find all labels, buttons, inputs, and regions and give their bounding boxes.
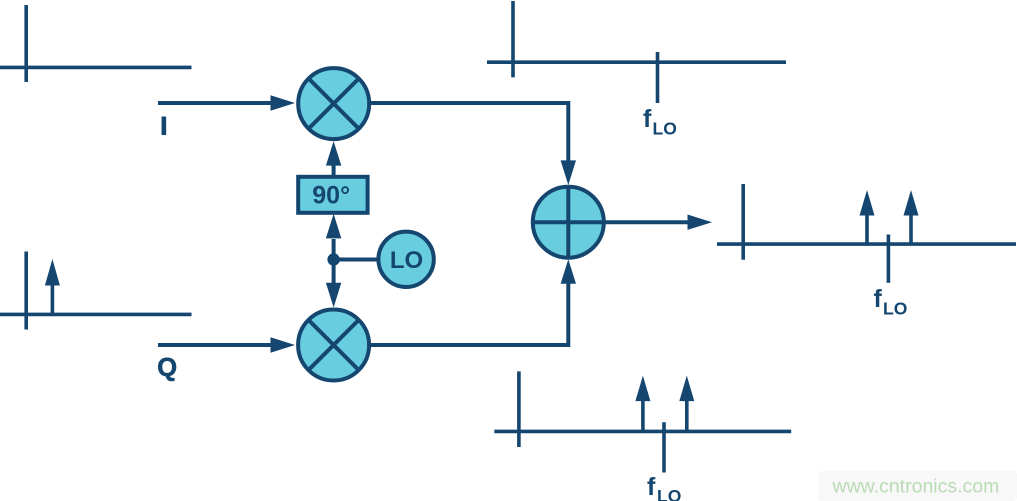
svg-text:LO: LO [657, 486, 681, 501]
spectrum right impulse 1 arrowhead [860, 190, 875, 216]
spectrum top-middle (LO spectrum) vertical axis [511, 1, 515, 77]
summer circle [533, 187, 604, 258]
spectrum bottom-middle impulse 2 shaft [685, 400, 689, 431]
svg-text:90°: 90° [312, 182, 350, 210]
spectrum axes top-left horizontal axis [0, 66, 192, 70]
wire junction to LO circle [334, 258, 378, 262]
wire junction down to mixer M2 [332, 260, 336, 285]
mixer M1 circle [298, 68, 369, 139]
spectrum right impulse 2 arrowhead [904, 190, 919, 216]
wire I input [158, 101, 272, 105]
svg-text:f: f [643, 105, 652, 133]
spectrum left-middle horizontal axis [0, 313, 192, 317]
mixer M1 X diagonal 1 [309, 79, 359, 129]
wire summer output [603, 220, 689, 224]
spectrum right fLO tick [887, 235, 891, 283]
arrowhead into summer bottom [561, 259, 576, 284]
summer plus horizontal line [534, 220, 603, 224]
arrowhead into summer top [561, 160, 576, 185]
wire junction to 90deg box [332, 239, 336, 260]
LO oscillator circle [378, 232, 433, 287]
spectrum right horizontal axis [717, 242, 1016, 246]
mixer M2 X diagonal 1 [309, 320, 359, 370]
spectrum left-middle (Q input spectrum) vertical axis [24, 252, 28, 330]
mixer M1 X diagonal 2 [309, 79, 359, 129]
svg-text:f: f [874, 285, 883, 313]
svg-text:I: I [160, 113, 167, 141]
spectrum right impulse 1 shaft [865, 213, 869, 244]
arrowhead summer output [688, 215, 713, 230]
spectrum bottom-middle impulse 2 arrowhead [679, 376, 694, 402]
spectrum bottom-middle impulse 1 arrowhead [635, 376, 650, 402]
spectrum bottom-middle impulse 1 shaft [641, 400, 645, 431]
svg-text:f: f [647, 473, 656, 501]
arrowhead into mixer M2 top [326, 283, 341, 308]
mixer M2 X diagonal 2 [309, 320, 359, 370]
wire M1 output to summer (right then down) [370, 103, 568, 162]
mixer M2 circle [298, 310, 369, 381]
svg-text:www.cntronics.com: www.cntronics.com [832, 476, 1000, 498]
summer plus vertical line [566, 188, 570, 257]
spectrum top-middle horizontal axis [487, 60, 786, 64]
arrowhead I input into mixer M1 [271, 95, 296, 110]
spectrum left-middle impulse shaft [51, 284, 55, 314]
svg-text:Q: Q [157, 354, 177, 382]
spectrum bottom-middle fLO tick [662, 422, 666, 472]
arrowhead into 90deg box bottom [326, 214, 341, 239]
svg-text:LO: LO [390, 247, 423, 274]
arrowhead Q input into mixer M2 [271, 337, 296, 352]
arrowhead into mixer M1 bottom [326, 141, 341, 166]
spectrum left-middle impulse arrowhead [45, 259, 60, 286]
spectrum bottom-middle horizontal axis [494, 430, 791, 434]
svg-text:LO: LO [653, 119, 677, 139]
junction dot LO node [327, 253, 339, 265]
watermark background [818, 471, 1017, 501]
wire Q input [158, 343, 272, 347]
90 degree phase shifter box [298, 177, 367, 213]
spectrum right (output spectrum) vertical axis [741, 184, 745, 260]
spectrum right impulse 2 shaft [909, 213, 913, 244]
wire M2 output to summer (right then up) [370, 282, 568, 345]
spectrum top-middle fLO tick [656, 52, 660, 103]
wire 90deg box to mixer M1 [332, 164, 336, 176]
spectrum bottom-middle (Q mixed spectrum) vertical axis [517, 371, 521, 447]
spectrum axes top-left (I input spectrum) vertical axis [24, 5, 28, 82]
svg-text:LO: LO [883, 299, 907, 319]
